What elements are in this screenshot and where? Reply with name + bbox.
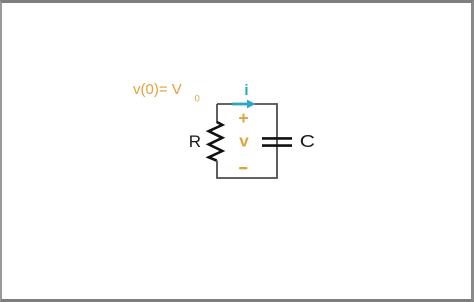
svg-text:C: C <box>300 131 315 151</box>
svg-text:v: v <box>239 131 249 150</box>
svg-text:0: 0 <box>195 93 200 104</box>
svg-text:+: + <box>238 108 248 128</box>
svg-text:R: R <box>189 132 201 151</box>
svg-text:i: i <box>244 82 248 99</box>
svg-text:v(0)= V: v(0)= V <box>133 81 182 98</box>
